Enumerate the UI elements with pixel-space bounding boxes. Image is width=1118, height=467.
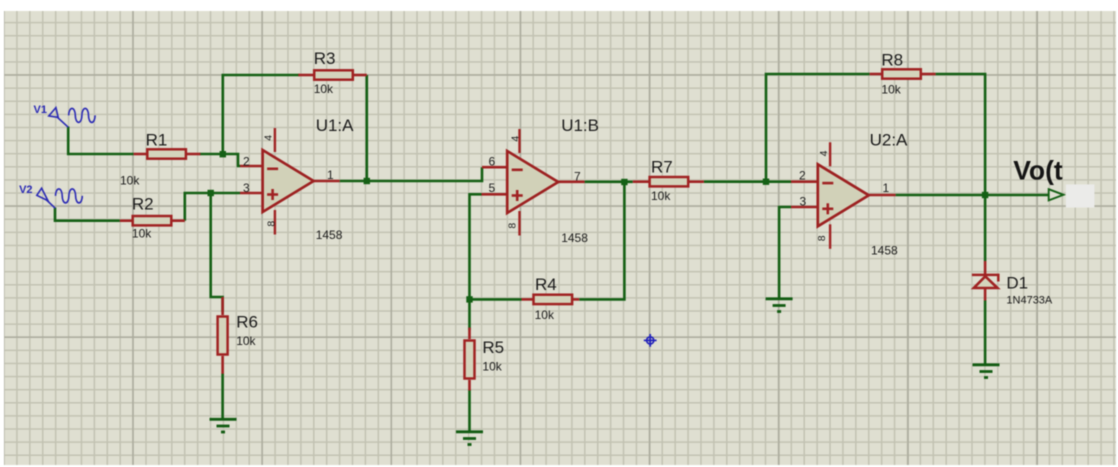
svg-text:4: 4: [263, 135, 275, 141]
svg-text:R5: R5: [482, 338, 504, 357]
svg-text:1458: 1458: [871, 243, 898, 257]
svg-text:10k: 10k: [482, 359, 502, 373]
svg-text:3: 3: [243, 181, 250, 195]
svg-text:D1: D1: [1006, 273, 1028, 292]
svg-text:1N4733A: 1N4733A: [1006, 295, 1053, 307]
svg-text:R1: R1: [146, 131, 168, 150]
svg-text:R4: R4: [535, 275, 557, 294]
svg-text:R8: R8: [881, 50, 903, 69]
svg-text:8: 8: [266, 221, 278, 227]
svg-text:10k: 10k: [651, 189, 671, 203]
svg-text:Vo(t: Vo(t: [1013, 156, 1063, 186]
svg-text:10k: 10k: [314, 82, 334, 96]
svg-text:6: 6: [489, 155, 496, 169]
svg-text:2: 2: [799, 169, 806, 183]
svg-text:10k: 10k: [535, 308, 555, 322]
svg-text:5: 5: [489, 181, 496, 195]
svg-text:10k: 10k: [132, 227, 152, 241]
svg-text:R6: R6: [236, 313, 258, 332]
svg-text:2: 2: [243, 155, 250, 169]
svg-text:U1:B: U1:B: [561, 116, 599, 135]
svg-text:10k: 10k: [120, 174, 140, 188]
svg-text:U1:A: U1:A: [316, 116, 354, 135]
svg-text:U2:A: U2:A: [870, 131, 908, 150]
svg-text:4: 4: [818, 150, 830, 156]
svg-text:1458: 1458: [316, 228, 343, 242]
svg-text:8: 8: [816, 235, 828, 241]
svg-text:10k: 10k: [236, 334, 256, 348]
svg-text:1: 1: [327, 168, 334, 182]
svg-text:R3: R3: [314, 49, 336, 68]
svg-text:7: 7: [574, 170, 581, 184]
svg-text:1: 1: [883, 181, 890, 195]
svg-text:R2: R2: [132, 195, 154, 214]
svg-text:10k: 10k: [881, 83, 901, 97]
svg-text:R7: R7: [651, 157, 673, 176]
svg-text:3: 3: [800, 195, 807, 209]
svg-text:V2: V2: [19, 184, 32, 196]
svg-text:8: 8: [506, 223, 518, 229]
svg-text:V1: V1: [34, 104, 47, 116]
svg-text:1458: 1458: [561, 231, 588, 245]
svg-text:4: 4: [509, 136, 521, 142]
